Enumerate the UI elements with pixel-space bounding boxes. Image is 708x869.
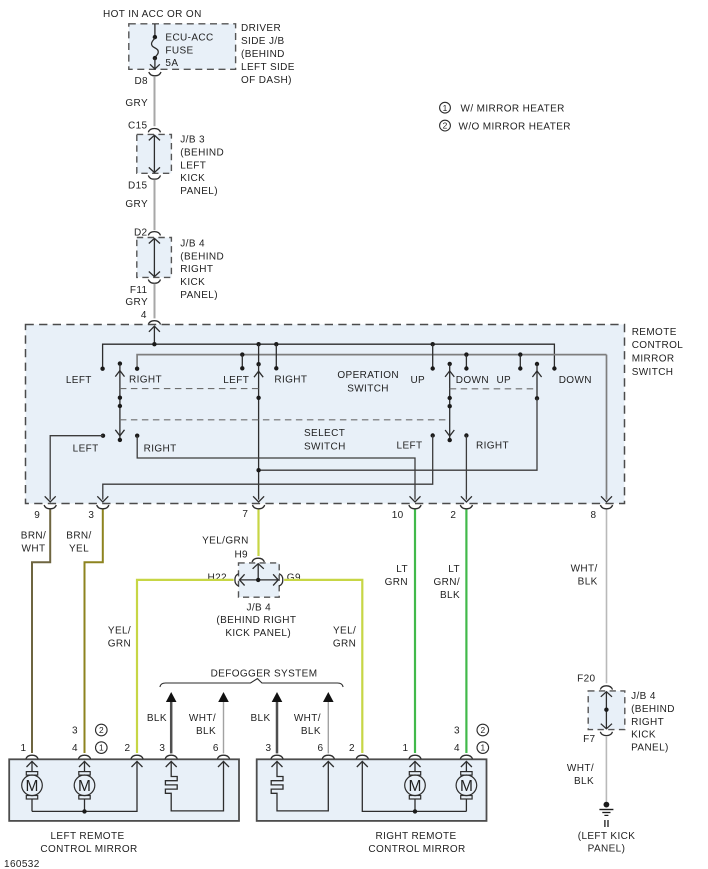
motor M (left/right) <box>31 761 33 771</box>
svg-text:LEFT: LEFT <box>397 441 423 452</box>
svg-text:PANEL): PANEL) <box>588 844 626 855</box>
svg-text:3: 3 <box>88 510 94 521</box>
svg-text:3: 3 <box>266 743 272 754</box>
wire second bus TW2 <box>137 355 606 369</box>
node TW1 junctions <box>152 342 156 346</box>
contact RIGHT (op sw 1) <box>135 367 139 371</box>
svg-text:MIRROR: MIRROR <box>632 354 675 365</box>
svg-text:(LEFT KICK: (LEFT KICK <box>578 831 636 842</box>
svg-text:4: 4 <box>454 743 460 754</box>
wire GRY F11-switch <box>154 284 156 319</box>
circled 2 (w/o heater pin) <box>477 724 489 736</box>
wire YEL/GRN pin7 to H9 <box>257 510 259 557</box>
svg-text:BLK: BLK <box>440 590 460 601</box>
svg-text:1: 1 <box>443 103 448 113</box>
ground (left kick panel) <box>599 802 613 827</box>
svg-text:D2: D2 <box>134 227 148 238</box>
contact LEFT (op sw 2) <box>240 366 244 370</box>
connector F11 <box>148 280 160 284</box>
fuse ECU-ACC 5A <box>150 24 214 69</box>
wire motor common bus to pin 2 <box>362 761 466 811</box>
svg-text:RIGHT: RIGHT <box>129 375 162 386</box>
wire BRN/YEL pin3 to left mirror pin4 <box>85 510 103 754</box>
svg-text:RIGHT: RIGHT <box>631 717 664 728</box>
svg-text:(BEHIND: (BEHIND <box>241 49 285 60</box>
svg-text:10: 10 <box>392 510 404 521</box>
svg-text:YEL/: YEL/ <box>108 626 131 637</box>
svg-text:RIGHT: RIGHT <box>144 444 177 455</box>
node motor bus junction <box>413 809 417 813</box>
legend circled 2 W/O MIRROR HEATER <box>440 120 571 132</box>
defogger wire BLK (right mirror pin3) <box>276 701 279 753</box>
svg-text:OF DASH): OF DASH) <box>241 75 292 86</box>
pin 10 exit <box>410 496 421 502</box>
svg-text:WHT/: WHT/ <box>294 713 321 724</box>
wire BRN/WHT pin9 to left mirror pin1 <box>32 510 50 754</box>
contact RIGHT (select 2) and wire to pin 2 <box>464 433 468 437</box>
svg-text:DRIVER: DRIVER <box>241 23 281 34</box>
junction block J/B 4 (H22/G9) <box>239 563 280 597</box>
switch arm 4 (joins W2) <box>532 362 541 401</box>
switch arm 3 <box>445 362 454 443</box>
svg-text:DOWN: DOWN <box>456 375 489 386</box>
svg-text:3: 3 <box>159 743 165 754</box>
defogger bracket <box>160 679 343 687</box>
svg-text:W/ MIRROR HEATER: W/ MIRROR HEATER <box>461 104 565 115</box>
svg-text:2: 2 <box>125 743 131 754</box>
svg-text:D15: D15 <box>128 181 148 192</box>
wire motor common bus to pin 2 <box>32 761 137 811</box>
svg-text:CONTROL: CONTROL <box>632 340 684 351</box>
svg-text:J/B 4: J/B 4 <box>246 602 271 613</box>
svg-text:RIGHT REMOTE: RIGHT REMOTE <box>375 831 456 842</box>
mirror heater element <box>165 761 223 811</box>
svg-text:BRN/: BRN/ <box>66 531 91 542</box>
svg-text:YEL/GRN: YEL/GRN <box>202 536 249 547</box>
defogger wire WHT/BLK (right mirror pin6) <box>327 701 329 753</box>
switch arm 1 <box>115 361 124 442</box>
svg-text:YEL: YEL <box>69 543 89 554</box>
pin 8 exit <box>601 496 612 502</box>
wire top bus TW1 <box>103 344 555 369</box>
svg-text:KICK PANEL): KICK PANEL) <box>225 628 291 639</box>
svg-text:2: 2 <box>443 121 448 131</box>
motor M (left/right) <box>414 761 416 771</box>
contact DOWN (op sw 4) <box>552 366 556 370</box>
svg-text:LEFT: LEFT <box>73 444 99 455</box>
svg-text:1: 1 <box>480 743 485 753</box>
svg-text:KICK: KICK <box>631 730 656 741</box>
contact UP (op sw 3) <box>431 366 435 370</box>
contact LEFT (op sw 1) <box>100 367 104 371</box>
svg-text:OPERATION: OPERATION <box>337 370 399 381</box>
node motor bus junction <box>82 809 86 813</box>
wire LT GRN pin10 to right mirror pin1 <box>414 510 416 754</box>
svg-text:GRY: GRY <box>125 199 148 210</box>
svg-text:BLK: BLK <box>147 713 167 724</box>
svg-text:LT: LT <box>396 564 408 575</box>
svg-text:9: 9 <box>34 510 40 521</box>
svg-text:PANEL): PANEL) <box>180 186 218 197</box>
svg-text:H9: H9 <box>234 550 248 561</box>
svg-text:3: 3 <box>454 726 460 737</box>
contact DOWN (op sw 3) <box>464 366 468 370</box>
svg-text:KICK: KICK <box>180 277 205 288</box>
svg-text:LEFT: LEFT <box>223 375 249 386</box>
svg-text:LT: LT <box>448 564 460 575</box>
svg-text:2: 2 <box>480 725 485 735</box>
wire WHT/BLK F7 to ground <box>605 736 607 803</box>
svg-text:BLK: BLK <box>578 576 598 587</box>
svg-text:ECU-ACC: ECU-ACC <box>165 32 213 43</box>
driver side J/B box <box>129 24 236 70</box>
svg-text:GRN: GRN <box>385 577 408 588</box>
svg-text:(BEHIND RIGHT: (BEHIND RIGHT <box>216 615 296 626</box>
contact LEFT (select 2) and wire W3 to pin 3 <box>431 433 435 437</box>
svg-text:LEFT: LEFT <box>180 160 206 171</box>
svg-text:(BEHIND: (BEHIND <box>180 148 224 159</box>
svg-text:FUSE: FUSE <box>165 45 193 56</box>
connector D8 <box>149 72 161 76</box>
svg-text:GRY: GRY <box>125 98 148 109</box>
junction block J/B 4 (F20/F7) <box>588 691 625 730</box>
svg-text:WHT/: WHT/ <box>189 713 216 724</box>
svg-text:2: 2 <box>99 725 104 735</box>
svg-text:WHT: WHT <box>22 543 46 554</box>
svg-text:6: 6 <box>318 743 324 754</box>
svg-text:GRN: GRN <box>108 639 131 650</box>
svg-text:J/B 3: J/B 3 <box>180 135 205 146</box>
svg-text:BLK: BLK <box>301 726 321 737</box>
mirror heater element <box>271 761 328 811</box>
svg-text:PANEL): PANEL) <box>180 290 218 301</box>
node TW2 junctions <box>240 352 244 356</box>
svg-text:GRN/: GRN/ <box>433 577 460 588</box>
svg-text:BLK: BLK <box>196 726 216 737</box>
wire pin4 to bus <box>153 326 155 344</box>
wire pin 8 drop <box>606 355 608 500</box>
pin 9 exit <box>45 496 56 502</box>
svg-text:4: 4 <box>72 743 78 754</box>
svg-text:BLK: BLK <box>574 776 594 787</box>
svg-text:2: 2 <box>450 510 456 521</box>
svg-text:F7: F7 <box>583 734 595 745</box>
svg-text:DEFOGGER SYSTEM: DEFOGGER SYSTEM <box>211 669 318 680</box>
contact stub DOWN1 <box>465 355 467 369</box>
svg-text:D8: D8 <box>134 76 148 87</box>
svg-text:PANEL): PANEL) <box>631 743 669 754</box>
svg-text:LEFT REMOTE: LEFT REMOTE <box>50 831 124 842</box>
svg-text:SELECT: SELECT <box>304 428 345 439</box>
svg-text:UP: UP <box>410 375 425 386</box>
motor M (up/down) <box>465 761 467 771</box>
pin 7 exit <box>253 496 264 502</box>
svg-text:6: 6 <box>213 743 219 754</box>
connector D15 <box>148 175 160 179</box>
wire WHT/BLK pin8 to F20 <box>606 510 608 684</box>
contact LEFT (select 1) and wire to pin 9 <box>101 434 105 438</box>
svg-text:8: 8 <box>591 510 597 521</box>
mech link dashes select sw <box>120 419 450 421</box>
svg-text:C15: C15 <box>128 121 148 132</box>
svg-text:YEL/: YEL/ <box>333 626 356 637</box>
contact stub UP1 <box>432 344 434 368</box>
svg-text:SIDE J/B: SIDE J/B <box>241 36 285 47</box>
svg-text:(BEHIND: (BEHIND <box>631 704 675 715</box>
svg-text:3: 3 <box>72 726 78 737</box>
svg-text:F11: F11 <box>130 285 148 296</box>
motor M (up/down) <box>84 761 86 771</box>
svg-text:HOT IN ACC OR ON: HOT IN ACC OR ON <box>103 9 202 20</box>
svg-text:J/B 4: J/B 4 <box>180 239 205 250</box>
junction block J/B 4 (behind right kick panel) <box>137 238 172 278</box>
mech link dashes op sw right <box>450 388 537 390</box>
svg-text:GRY: GRY <box>125 297 148 308</box>
wire LT GRN/BLK pin2 to right mirror pin4 <box>465 510 467 754</box>
svg-text:RIGHT: RIGHT <box>476 441 509 452</box>
svg-text:160532: 160532 <box>4 859 40 869</box>
defogger wire BLK (left mirror pin3) <box>170 701 173 753</box>
pin 4 entry arrow <box>149 326 160 332</box>
svg-text:5A: 5A <box>165 58 178 69</box>
circled 1 (w/ heater pin) <box>477 742 489 754</box>
svg-text:SWITCH: SWITCH <box>304 441 346 452</box>
svg-text:J/B 4: J/B 4 <box>631 691 656 702</box>
svg-text:LEFT SIDE: LEFT SIDE <box>241 62 295 73</box>
svg-text:CONTROL MIRROR: CONTROL MIRROR <box>368 844 465 855</box>
wire YEL/GRN G9 to right mirror pin2 <box>284 580 362 753</box>
svg-text:F20: F20 <box>577 674 595 685</box>
wire GRY D15-D2 <box>154 180 156 231</box>
node arm2/W2 junction <box>256 468 260 472</box>
svg-text:GRN: GRN <box>333 639 356 650</box>
svg-text:WHT/: WHT/ <box>567 763 594 774</box>
junction block J/B 3 <box>137 134 172 173</box>
svg-text:LEFT: LEFT <box>66 375 92 386</box>
svg-text:KICK: KICK <box>180 173 205 184</box>
mech link dashes op sw left <box>120 388 259 390</box>
svg-text:SWITCH: SWITCH <box>632 367 674 378</box>
contact stub LEFT2 <box>241 355 243 369</box>
svg-text:W/O MIRROR HEATER: W/O MIRROR HEATER <box>459 122 571 133</box>
circled 1 (w/ heater pin) <box>96 742 108 754</box>
wire GRY D8-C15 <box>154 76 156 126</box>
circled 2 (w/o heater pin) <box>96 724 108 736</box>
svg-text:REMOTE: REMOTE <box>632 327 677 338</box>
pin 2 exit <box>461 496 472 502</box>
svg-text:SWITCH: SWITCH <box>347 383 389 394</box>
wire W2 arm2 to arm4 <box>259 398 537 470</box>
switch arm 2 (to pin 7) <box>254 344 263 499</box>
contact UP (op sw 4) <box>518 366 522 370</box>
svg-text:BLK: BLK <box>250 713 270 724</box>
svg-text:1: 1 <box>99 743 104 753</box>
svg-text:CONTROL MIRROR: CONTROL MIRROR <box>40 844 137 855</box>
svg-text:DOWN: DOWN <box>559 375 592 386</box>
svg-text:7: 7 <box>242 509 248 520</box>
svg-text:1: 1 <box>21 743 27 754</box>
wire YEL/GRN H22 to left mirror pin2 <box>137 580 234 753</box>
legend circled 1 W/ MIRROR HEATER <box>440 102 565 114</box>
svg-text:RIGHT: RIGHT <box>180 264 213 275</box>
svg-text:BRN/: BRN/ <box>21 531 46 542</box>
svg-text:2: 2 <box>349 743 355 754</box>
svg-text:(BEHIND: (BEHIND <box>180 251 224 262</box>
svg-text:WHT/: WHT/ <box>571 564 598 575</box>
svg-text:RIGHT: RIGHT <box>274 375 307 386</box>
contact stub RIGHT2 <box>275 344 277 368</box>
contact stub UP2 <box>519 355 521 369</box>
pin 3 exit <box>97 496 108 502</box>
svg-text:G9: G9 <box>287 573 301 584</box>
svg-text:4: 4 <box>141 310 147 321</box>
svg-text:1: 1 <box>403 743 409 754</box>
svg-text:UP: UP <box>496 375 511 386</box>
connector F7 <box>600 732 612 736</box>
svg-text:H22: H22 <box>208 573 228 584</box>
contact RIGHT (select 1) and wire W1 to pin 10 <box>135 434 139 438</box>
contact RIGHT (op sw 2) <box>274 366 278 370</box>
defogger wire WHT/BLK (left mirror pin6) <box>223 701 225 753</box>
